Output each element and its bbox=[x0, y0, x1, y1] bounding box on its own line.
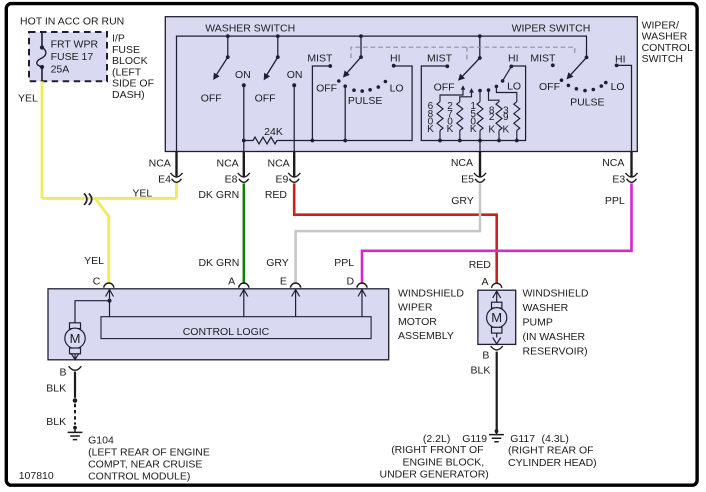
svg-text:BLK: BLK bbox=[46, 383, 66, 395]
svg-text:C: C bbox=[93, 276, 101, 288]
svg-text:I/P: I/P bbox=[112, 33, 125, 45]
svg-text:DASH): DASH) bbox=[112, 89, 145, 101]
svg-text:YEL: YEL bbox=[18, 92, 38, 104]
svg-text:E5: E5 bbox=[461, 173, 474, 185]
wire YEL from fuse down and across bbox=[42, 81, 177, 198]
ground G119/G117 bbox=[495, 429, 499, 433]
svg-text:25A: 25A bbox=[51, 64, 70, 76]
svg-text:107810: 107810 bbox=[19, 470, 54, 482]
resistor 150K bbox=[477, 102, 483, 141]
wire E8 drop bbox=[243, 152, 245, 178]
svg-text:ON: ON bbox=[235, 69, 251, 81]
svg-text:K: K bbox=[488, 124, 495, 135]
node splice bbox=[73, 398, 78, 403]
svg-text:PUMP: PUMP bbox=[523, 317, 553, 329]
terminal B (pump) bbox=[491, 346, 503, 350]
node HI contact bbox=[392, 64, 396, 68]
svg-text:NCA: NCA bbox=[602, 157, 624, 169]
SW2 ON contact and wire to E9 bbox=[292, 83, 296, 87]
svg-text:2: 2 bbox=[489, 112, 495, 123]
svg-text:NCA: NCA bbox=[451, 157, 473, 169]
wiper resistor rotary arm bbox=[456, 56, 482, 83]
inline connector on YEL wire bbox=[84, 194, 92, 205]
wire DK GRN E8 to A bbox=[243, 183, 246, 283]
windshield washer pump box bbox=[478, 290, 516, 344]
svg-text:BLOCK: BLOCK bbox=[112, 55, 148, 67]
svg-text:RED: RED bbox=[469, 259, 492, 271]
svg-text:B: B bbox=[59, 367, 66, 379]
wire BLK dashed continuation bbox=[74, 404, 76, 425]
svg-text:K: K bbox=[447, 124, 454, 135]
svg-text:COMPT, NEAR CRUISE: COMPT, NEAR CRUISE bbox=[88, 458, 202, 470]
node HI contact and wire to E3 bbox=[615, 64, 619, 68]
wire PPL E3 to D bbox=[362, 183, 632, 283]
svg-text:WINDSHIELD: WINDSHIELD bbox=[523, 288, 589, 300]
connector E8 bbox=[238, 173, 250, 182]
svg-text:OFF: OFF bbox=[201, 93, 222, 105]
svg-text:ENGINE BLOCK,: ENGINE BLOCK, bbox=[403, 456, 485, 468]
node LO contact bbox=[604, 81, 608, 85]
node OFF contact bbox=[560, 78, 564, 82]
svg-text:WASHER: WASHER bbox=[642, 31, 688, 43]
terminal A (pump) bbox=[492, 283, 502, 288]
svg-text:GRY: GRY bbox=[266, 257, 289, 269]
wire RED E9 to washer pump A bbox=[294, 183, 497, 283]
washer switch SW2 arm bbox=[261, 55, 280, 82]
nodes PULSE arc contacts bbox=[352, 88, 356, 92]
svg-text:WIPER/: WIPER/ bbox=[642, 19, 679, 31]
contact 2 arrow to resistor 270K bbox=[469, 88, 474, 93]
svg-text:RED: RED bbox=[265, 189, 288, 201]
svg-text:M: M bbox=[491, 310, 502, 325]
svg-text:OFF: OFF bbox=[316, 82, 337, 94]
terminal A bbox=[239, 283, 249, 288]
svg-text:MIST: MIST bbox=[427, 53, 453, 65]
svg-text:NCA: NCA bbox=[149, 157, 171, 169]
svg-text:CONTROL: CONTROL bbox=[642, 42, 693, 54]
svg-text:BLK: BLK bbox=[471, 364, 491, 376]
ground G104 bbox=[73, 426, 77, 430]
wire E4 drop bbox=[175, 152, 177, 178]
svg-text:NCA: NCA bbox=[217, 157, 239, 169]
node LO contact bbox=[384, 80, 388, 84]
svg-text:(LEFT REAR OF ENGINE: (LEFT REAR OF ENGINE bbox=[88, 447, 210, 459]
svg-text:LO: LO bbox=[611, 81, 625, 93]
washer switch SW1 arm bbox=[210, 55, 229, 82]
connector E4 bbox=[171, 173, 183, 182]
wire E3 drop bbox=[630, 152, 632, 178]
node MIST contact bbox=[328, 64, 332, 68]
contact 1 arrow to resistor 680K bbox=[461, 85, 466, 90]
node OFF contact bbox=[337, 79, 341, 83]
mechanical linkage (dashed) bbox=[351, 47, 575, 61]
connector E9 bbox=[288, 173, 300, 182]
svg-text:OFF: OFF bbox=[539, 81, 560, 93]
svg-text:OFF: OFF bbox=[255, 93, 276, 105]
svg-text:UNDER GENERATOR): UNDER GENERATOR) bbox=[380, 469, 489, 481]
washer rotary switch box bbox=[312, 66, 412, 141]
svg-text:DK GRN: DK GRN bbox=[198, 257, 239, 269]
svg-text:OFF: OFF bbox=[434, 82, 455, 94]
svg-text:G104: G104 bbox=[88, 435, 114, 447]
resistor 39K bbox=[514, 102, 520, 141]
svg-text:PULSE: PULSE bbox=[348, 95, 382, 107]
svg-text:HI: HI bbox=[390, 53, 401, 65]
svg-text:YEL: YEL bbox=[84, 255, 104, 267]
contact 4 to resistor 82K bbox=[487, 88, 491, 92]
fuse F17 symbol bbox=[37, 32, 46, 81]
terminal C bbox=[104, 283, 114, 288]
motor M symbol (pump) bbox=[492, 302, 502, 308]
svg-text:ON: ON bbox=[287, 69, 303, 81]
connector E5 bbox=[474, 173, 486, 182]
svg-text:(RIGHT REAR OF: (RIGHT REAR OF bbox=[508, 445, 594, 457]
svg-text:MIST: MIST bbox=[307, 53, 333, 65]
node MIST contact bbox=[445, 64, 449, 68]
svg-text:SWITCH: SWITCH bbox=[642, 53, 683, 65]
windshield wiper motor assembly box bbox=[48, 289, 389, 360]
svg-text:MIST: MIST bbox=[530, 52, 556, 64]
svg-text:NCA: NCA bbox=[268, 157, 290, 169]
control logic box bbox=[101, 317, 371, 339]
wire YEL branch down to C bbox=[95, 198, 109, 283]
svg-text:FUSE 17: FUSE 17 bbox=[51, 51, 94, 63]
svg-text:(IN WASHER: (IN WASHER bbox=[523, 331, 586, 343]
svg-text:E8: E8 bbox=[225, 173, 238, 185]
svg-text:B: B bbox=[482, 349, 489, 361]
resistor 82K bbox=[496, 102, 502, 141]
svg-text:FUSE: FUSE bbox=[112, 44, 140, 56]
bus wire inside switch bbox=[177, 36, 587, 151]
svg-text:LO: LO bbox=[507, 81, 521, 93]
svg-text:WASHER: WASHER bbox=[523, 302, 569, 314]
svg-text:24K: 24K bbox=[264, 126, 283, 138]
svg-text:A: A bbox=[481, 276, 488, 288]
svg-text:A: A bbox=[228, 276, 235, 288]
svg-text:WIPER: WIPER bbox=[398, 302, 433, 314]
node HI contact and diagonal from contact 6 bbox=[509, 65, 513, 69]
node MIST contact bbox=[551, 63, 555, 67]
svg-text:E3: E3 bbox=[612, 173, 625, 185]
I/P fuse block (dashed box) bbox=[29, 32, 107, 81]
svg-text:SIDE OF: SIDE OF bbox=[112, 78, 154, 90]
terminal E bbox=[290, 283, 300, 288]
svg-text:CONTROL LOGIC: CONTROL LOGIC bbox=[183, 326, 270, 338]
contact 5 (LO) to resistor 39K bbox=[495, 85, 499, 89]
nodes PULSE arc contacts (delay rotary) bbox=[567, 84, 571, 88]
svg-text:YEL: YEL bbox=[132, 188, 152, 200]
svg-text:K: K bbox=[427, 124, 434, 135]
svg-text:E: E bbox=[280, 276, 287, 288]
svg-text:K: K bbox=[470, 124, 477, 135]
wiper/washer control switch box bbox=[165, 17, 637, 152]
svg-text:M: M bbox=[70, 331, 81, 346]
svg-text:PPL: PPL bbox=[605, 195, 625, 207]
svg-text:GRY: GRY bbox=[451, 195, 474, 207]
svg-text:D: D bbox=[347, 276, 355, 288]
svg-text:(LEFT: (LEFT bbox=[112, 66, 142, 78]
svg-text:BLK: BLK bbox=[46, 416, 66, 428]
svg-text:LO: LO bbox=[390, 82, 404, 94]
wire BLK pump to ground bbox=[496, 352, 498, 431]
wiper resistor rotary box bbox=[421, 66, 525, 141]
svg-text:CYLINDER HEAD): CYLINDER HEAD) bbox=[508, 457, 597, 469]
svg-text:DK GRN: DK GRN bbox=[198, 189, 239, 201]
wire BLK motor to splice bbox=[74, 372, 76, 398]
svg-text:E4: E4 bbox=[158, 173, 171, 185]
svg-text:9: 9 bbox=[503, 112, 509, 123]
svg-text:WINDSHIELD: WINDSHIELD bbox=[398, 288, 464, 300]
SW1 ON contact and wire to E8 bbox=[242, 83, 246, 87]
svg-text:PPL: PPL bbox=[334, 257, 354, 269]
svg-text:K: K bbox=[502, 124, 509, 135]
svg-text:ASSEMBLY: ASSEMBLY bbox=[398, 330, 454, 342]
svg-text:WIPER SWITCH: WIPER SWITCH bbox=[512, 22, 591, 34]
svg-text:FRT WPR: FRT WPR bbox=[51, 39, 99, 51]
wire E5 feed from rail bbox=[479, 141, 481, 152]
svg-text:MOTOR: MOTOR bbox=[398, 316, 437, 328]
resistor 270K bbox=[457, 102, 463, 141]
svg-text:WASHER SWITCH: WASHER SWITCH bbox=[205, 22, 295, 34]
svg-text:PULSE: PULSE bbox=[570, 96, 604, 108]
wiper delay rotary arm bbox=[564, 56, 588, 82]
svg-text:HI: HI bbox=[508, 53, 519, 65]
wire E5 drop bbox=[479, 152, 481, 178]
contact 3 to resistor 150K bbox=[478, 89, 482, 93]
wire E9 drop bbox=[293, 152, 295, 178]
washer rotary arm bbox=[340, 55, 363, 80]
terminal B (motor) bbox=[69, 366, 82, 370]
wire GRY E5 to E bbox=[296, 183, 480, 283]
svg-text:(4.3L): (4.3L) bbox=[542, 433, 569, 445]
svg-text:CONTROL MODULE): CONTROL MODULE) bbox=[88, 470, 190, 482]
washer rotary pulse contact and wire to rail bbox=[343, 84, 347, 88]
resistor 24K and bottom rail bbox=[244, 137, 313, 144]
svg-text:(RIGHT FRONT OF: (RIGHT FRONT OF bbox=[391, 444, 483, 456]
svg-text:HOT IN ACC OR RUN: HOT IN ACC OR RUN bbox=[20, 16, 124, 28]
svg-text:RESERVOIR): RESERVOIR) bbox=[523, 346, 588, 358]
junction node dots on bus bbox=[226, 34, 230, 38]
node C junction bbox=[108, 299, 112, 303]
resistor 680K bbox=[437, 102, 443, 141]
svg-text:E9: E9 bbox=[275, 173, 288, 185]
terminal D bbox=[357, 283, 367, 288]
svg-text:G117: G117 bbox=[510, 433, 535, 445]
connector E3 bbox=[626, 173, 638, 182]
motor M symbol (wiper) bbox=[70, 323, 81, 329]
